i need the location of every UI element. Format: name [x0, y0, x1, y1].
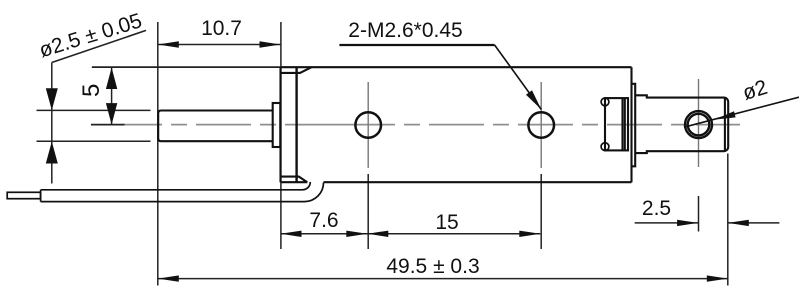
- svg-text:ø2.5 ± 0.05: ø2.5 ± 0.05: [37, 9, 145, 62]
- svg-text:49.5 ± 0.3: 49.5 ± 0.3: [386, 255, 479, 278]
- svg-text:7.6: 7.6: [309, 209, 338, 232]
- svg-text:2.5: 2.5: [642, 197, 671, 220]
- svg-text:2-M2.6*0.45: 2-M2.6*0.45: [348, 19, 462, 42]
- svg-text:ø2: ø2: [740, 76, 770, 105]
- svg-text:10.7: 10.7: [201, 17, 242, 40]
- svg-text:15: 15: [435, 211, 458, 234]
- svg-text:5: 5: [78, 84, 105, 97]
